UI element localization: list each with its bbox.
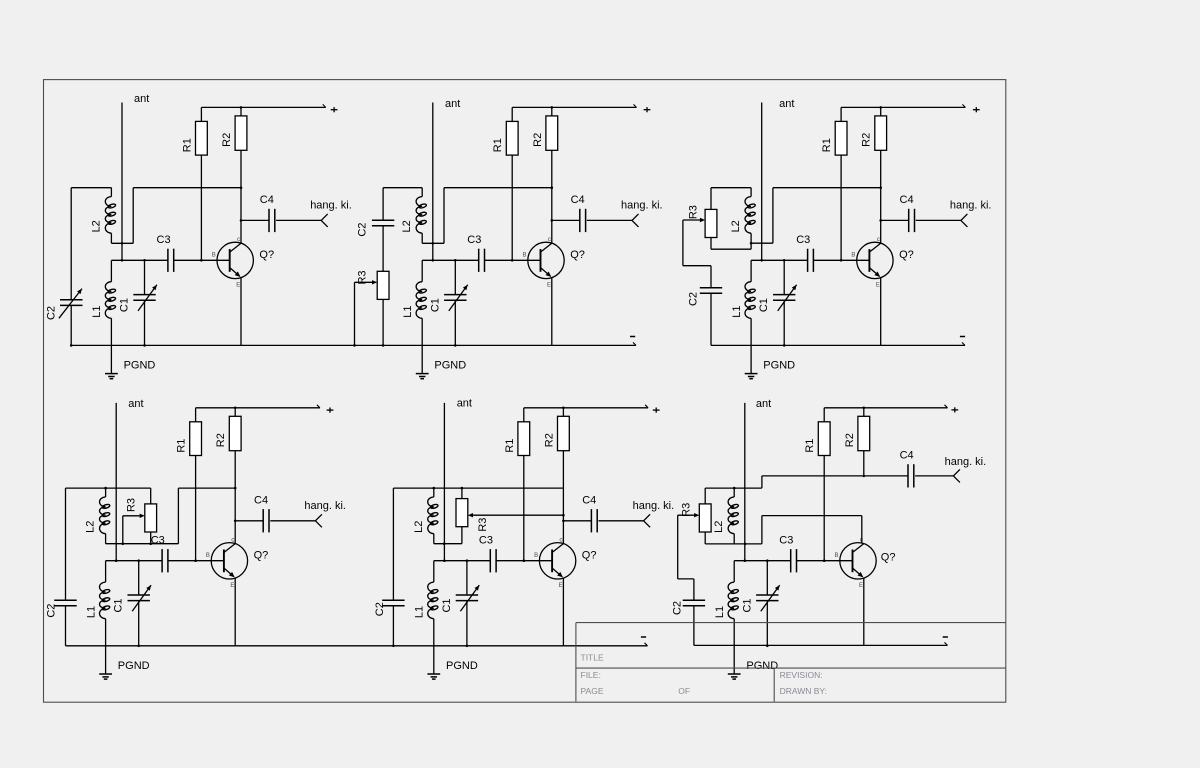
svg-text:hang. ki.: hang. ki. (304, 500, 346, 512)
wire (R2 to collector) (551, 150, 553, 243)
node - (641, 636, 646, 638)
svg-text:ant: ant (128, 398, 143, 410)
capacitor C1 (variable) (756, 559, 780, 647)
svg-text:L2: L2 (730, 220, 742, 232)
svg-text:C4: C4 (582, 495, 596, 507)
node hang. ki. output (961, 214, 968, 227)
svg-text:C2: C2 (45, 604, 57, 618)
svg-text:L1: L1 (714, 606, 726, 618)
svg-text:hang. ki.: hang. ki. (950, 200, 992, 212)
wire (R1 to base) (511, 155, 513, 260)
wire (base net right) (496, 560, 552, 562)
svg-text:C4: C4 (254, 495, 268, 507)
wire (base net) (434, 560, 491, 562)
wire (base net) (734, 560, 791, 562)
wire (L2 bottom to riser) (751, 242, 773, 244)
wire (+ supply rail) (524, 407, 648, 409)
svg-text:L1: L1 (414, 606, 426, 618)
wire (R1 to base) (840, 155, 842, 260)
svg-text:R3: R3 (357, 270, 369, 284)
capacitor C2 (683, 579, 705, 646)
wire (base net right) (797, 560, 853, 562)
svg-text:Q?: Q? (254, 550, 269, 562)
svg-text:R2: R2 (221, 133, 233, 147)
resistor R2 (858, 408, 870, 451)
svg-text:C1: C1 (741, 598, 753, 612)
capacitor C3 (168, 249, 174, 272)
wire (feedback to R2) (133, 187, 241, 189)
wire (emitter to rail) (234, 578, 236, 646)
capacitor C1 (variable) (456, 559, 480, 647)
node - (960, 336, 965, 338)
node hang. ki. output (321, 214, 328, 227)
svg-text:L1: L1 (731, 305, 743, 317)
resistor R1 (835, 107, 847, 155)
svg-text:R1: R1 (804, 439, 816, 453)
ground PGND symbol (728, 674, 741, 679)
svg-text:C2: C2 (687, 292, 699, 306)
node hang. ki. output (632, 214, 639, 227)
resistor R2 (235, 107, 247, 150)
capacitor C4 (234, 509, 316, 532)
wire (R3 wiper) (683, 218, 711, 266)
svg-text:Q?: Q? (582, 550, 597, 562)
wire (ground stub) (105, 646, 107, 674)
wire (- rail circuits 1-2) (71, 344, 636, 346)
resistor R3 (variable) (705, 188, 717, 250)
node + (331, 109, 338, 111)
resistor R2 (558, 408, 570, 451)
inductor L1 (99, 561, 110, 646)
svg-text:L2: L2 (401, 220, 413, 232)
transistor Q? (534, 537, 576, 590)
wire (ground stub) (110, 345, 112, 373)
node + (951, 409, 958, 411)
wire (riser to W2) (761, 516, 763, 544)
svg-text:L2: L2 (713, 521, 725, 533)
node + (653, 409, 660, 411)
node hang. ki. output (644, 514, 651, 527)
wire (R2 to collector) (234, 451, 236, 544)
wire (- rail circuits 4-5) (66, 645, 648, 647)
wire (+ supply rail) (196, 407, 320, 409)
capacitor C3 (162, 549, 168, 572)
wire (feedback to R2) (773, 187, 881, 189)
wire (top link rail) (393, 487, 563, 489)
capacitor C3 (490, 549, 496, 572)
capacitor C2 (382, 488, 404, 647)
wire (antenna) (443, 403, 445, 561)
svg-text:E: E (559, 583, 563, 589)
inductor L1 (745, 260, 756, 345)
wire (R2 to collector) (562, 451, 564, 544)
svg-text:C3: C3 (479, 534, 493, 546)
capacitor C4 (240, 209, 322, 232)
svg-text:L1: L1 (91, 305, 103, 317)
wire (R2 to collector) (240, 150, 242, 243)
svg-text:hang. ki.: hang. ki. (633, 500, 675, 512)
svg-text:R1: R1 (821, 138, 833, 152)
svg-text:R2: R2 (532, 133, 544, 147)
wire (+ supply rail) (841, 106, 965, 108)
wire (riser) (772, 188, 774, 244)
wire (antenna) (115, 403, 117, 561)
node hang. ki. output (953, 469, 960, 482)
svg-text:E: E (236, 283, 240, 289)
resistor R1 (506, 107, 518, 155)
capacitor C3 (479, 249, 485, 272)
ground PGND symbol (99, 674, 112, 679)
node + (327, 409, 334, 411)
wire (ground stub) (421, 345, 423, 373)
resistor R1 (518, 408, 530, 456)
capacitor C1 (variable) (444, 259, 468, 347)
wire (emitter to rail) (240, 278, 242, 346)
capacitor C1 (variable) (133, 259, 157, 347)
svg-text:B: B (523, 253, 527, 259)
wire (R1 to base) (823, 456, 825, 561)
capacitor C4 (551, 209, 633, 232)
resistor R1 (818, 408, 830, 456)
svg-text:C1: C1 (441, 598, 453, 612)
svg-text:B: B (851, 253, 855, 259)
ground PGND symbol (745, 374, 758, 379)
svg-text:C3: C3 (467, 234, 481, 246)
wire (left rail top) (66, 487, 151, 489)
svg-text:R2: R2 (844, 433, 856, 447)
wire (L2 bottom to riser) (111, 242, 133, 244)
wire (emitter to rail) (863, 578, 865, 645)
transistor Q? (835, 537, 877, 590)
wire (emitter to rail) (880, 278, 882, 346)
resistor R1 (196, 107, 208, 155)
transistor Q? (851, 236, 893, 289)
svg-text:L2: L2 (85, 521, 97, 533)
svg-text:ant: ant (445, 98, 460, 110)
wire (R3 wiper to collector) (468, 513, 565, 517)
inductor L1 (428, 561, 439, 646)
capacitor C2 (700, 266, 722, 346)
svg-text:OF: OF (678, 686, 690, 696)
ground PGND symbol (427, 674, 440, 679)
svg-text:R1: R1 (176, 439, 188, 453)
svg-text:B: B (835, 553, 839, 559)
inductor L1 (105, 260, 116, 345)
svg-text:B: B (206, 553, 210, 559)
svg-text:B: B (212, 253, 216, 259)
wire (+ supply rail) (512, 106, 636, 108)
ground PGND symbol (416, 374, 429, 379)
wire (antenna) (121, 103, 123, 261)
svg-text:L2: L2 (90, 220, 102, 232)
wire (- rail circuit 6) (694, 644, 948, 646)
capacitor C4 (864, 464, 954, 487)
wire (- rail circuit 3) (711, 344, 965, 346)
wire (feedback to R2) (444, 187, 552, 189)
svg-text:hang. ki.: hang. ki. (621, 200, 663, 212)
capacitor C2 (372, 188, 394, 272)
svg-text:PGND: PGND (763, 360, 795, 372)
wire (base net) (422, 259, 479, 261)
inductor L2 (105, 188, 116, 244)
svg-text:FILE:: FILE: (581, 670, 601, 680)
wire (ground stub) (750, 345, 752, 373)
resistor R1 (190, 408, 202, 456)
svg-text:PGND: PGND (746, 660, 778, 672)
svg-text:R1: R1 (504, 439, 516, 453)
resistor R3 (variable) (456, 488, 468, 544)
wire (loop top) (711, 187, 751, 189)
svg-text:C1: C1 (119, 298, 131, 312)
svg-text:C3: C3 (779, 534, 793, 546)
wire (riser) (132, 188, 134, 244)
wire (loop bottom) (434, 543, 462, 545)
svg-text:PGND: PGND (118, 660, 150, 672)
wire (R1 to base) (523, 456, 525, 561)
svg-text:C2: C2 (46, 306, 58, 320)
svg-text:C4: C4 (900, 194, 914, 206)
svg-text:ant: ant (756, 398, 771, 410)
svg-text:DRAWN BY:: DRAWN BY: (780, 686, 827, 696)
svg-text:C2: C2 (374, 602, 386, 616)
svg-text:Q?: Q? (570, 249, 585, 261)
svg-text:REVISION:: REVISION: (780, 670, 823, 680)
svg-text:E: E (876, 283, 880, 289)
wire (R3 wiper) (353, 280, 377, 347)
capacitor C4 (879, 209, 961, 232)
wire (base net right) (485, 259, 541, 261)
wire (base net) (111, 259, 167, 261)
svg-text:E: E (547, 283, 551, 289)
resistor R2 (546, 107, 558, 150)
svg-text:C3: C3 (151, 534, 165, 546)
wire (base net right) (813, 259, 869, 261)
svg-text:hang. ki.: hang. ki. (945, 456, 987, 468)
capacitor C2 (variable) (59, 188, 83, 347)
resistor R3 (variable) (699, 488, 711, 544)
svg-text:PGND: PGND (124, 360, 156, 372)
svg-text:Q?: Q? (899, 249, 914, 261)
svg-text:R1: R1 (492, 138, 504, 152)
inductor L1 (416, 260, 427, 345)
wire (antenna) (432, 103, 434, 261)
svg-text:C4: C4 (571, 194, 585, 206)
svg-text:R1: R1 (181, 138, 193, 152)
inductor L2 (416, 188, 427, 244)
wire (R1 to base) (200, 155, 202, 260)
title block (576, 623, 1006, 702)
wire (riser) (177, 488, 179, 544)
inductor L1 (728, 561, 739, 646)
wire (ground stub) (433, 646, 435, 674)
capacitor C4 (562, 509, 643, 532)
resistor R3 (variable) (145, 488, 157, 545)
resistor R3 (variable) (377, 271, 389, 346)
svg-text:E: E (859, 583, 863, 589)
svg-text:PGND: PGND (446, 660, 478, 672)
node + (644, 109, 651, 111)
sheet border frame (44, 80, 1006, 703)
svg-text:C2: C2 (357, 223, 369, 237)
wire (emitter to rail) (562, 578, 564, 646)
resistor R2 (229, 408, 241, 451)
svg-text:C1: C1 (429, 298, 441, 312)
svg-text:E: E (230, 583, 234, 589)
capacitor C1 (variable) (773, 259, 797, 347)
svg-text:R3: R3 (687, 205, 699, 219)
svg-text:C3: C3 (157, 234, 171, 246)
wire (loop bottom) (711, 248, 751, 250)
svg-text:C1: C1 (758, 298, 770, 312)
wire (R2 to collector) (880, 150, 882, 243)
wire (+ supply rail) (824, 407, 947, 409)
svg-text:Q?: Q? (259, 249, 274, 261)
svg-text:hang. ki.: hang. ki. (310, 200, 352, 212)
svg-text:ant: ant (779, 98, 794, 110)
svg-text:C3: C3 (796, 234, 810, 246)
transistor Q? (212, 236, 254, 289)
wire (emitter to rail) (551, 278, 553, 346)
svg-text:B: B (534, 553, 538, 559)
wire (riser) (443, 188, 445, 244)
svg-text:TITLE: TITLE (581, 653, 604, 663)
node - (630, 336, 635, 338)
capacitor C3 (808, 249, 814, 272)
title block labels (581, 653, 827, 696)
inductor L2 (428, 488, 439, 544)
svg-text:C1: C1 (113, 598, 125, 612)
transistor Q? (523, 236, 565, 289)
svg-text:ant: ant (457, 398, 472, 410)
wire (C2 top link) (383, 187, 422, 189)
node + (973, 109, 980, 111)
svg-text:PGND: PGND (434, 360, 466, 372)
wire (R3 wiper) (678, 513, 700, 579)
svg-text:R3: R3 (126, 498, 138, 512)
wire (R1 to base) (195, 456, 197, 561)
svg-text:L1: L1 (402, 305, 414, 317)
wire (loop top) (705, 487, 762, 489)
resistor R2 (875, 107, 887, 150)
wire (left rail top) (71, 187, 111, 189)
wire (base net) (751, 259, 808, 261)
inductor L2 (728, 488, 739, 544)
svg-text:C2: C2 (672, 601, 684, 615)
node - (943, 636, 948, 638)
capacitor C3 (791, 549, 797, 572)
svg-text:L1: L1 (86, 606, 98, 618)
wire (ground stub) (733, 646, 735, 674)
svg-text:R3: R3 (477, 518, 489, 532)
svg-text:C4: C4 (260, 194, 274, 206)
svg-text:R2: R2 (543, 433, 555, 447)
svg-text:R2: R2 (215, 433, 227, 447)
wire (antenna) (761, 103, 763, 261)
wire (R3 wiper) (122, 514, 145, 545)
wire (base net right) (168, 560, 224, 562)
capacitor C1 (variable) (128, 559, 152, 647)
wire (loop bottom) (705, 543, 762, 545)
wire (+ supply rail) (201, 106, 325, 108)
wire (output link W1) (762, 475, 865, 489)
wire (base net) (106, 560, 163, 562)
wire (L2 bottom to riser) (422, 242, 444, 244)
wire (loop bottom) (106, 543, 179, 545)
wire (antenna) (744, 403, 746, 561)
svg-text:R2: R2 (861, 133, 873, 147)
svg-text:PAGE: PAGE (581, 686, 604, 696)
node hang. ki. output (315, 514, 322, 527)
svg-text:C4: C4 (900, 450, 914, 462)
wire (W2 to collector) (762, 516, 862, 544)
wire (base net right) (174, 259, 230, 261)
transistor Q? (206, 537, 248, 590)
inductor L2 (745, 188, 756, 250)
capacitor C2 (54, 488, 76, 646)
svg-text:Q?: Q? (881, 552, 896, 564)
wire (R2 to output node) (863, 451, 865, 476)
wire (feedback to R2) (178, 487, 235, 489)
inductor L2 (99, 488, 110, 544)
svg-text:ant: ant (134, 93, 149, 105)
svg-text:L2: L2 (413, 521, 425, 533)
ground PGND symbol (105, 374, 118, 379)
